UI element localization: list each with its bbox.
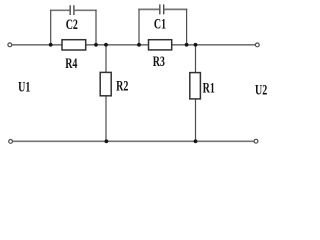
svg-text:U1: U1 — [18, 79, 30, 95]
svg-text:R4: R4 — [65, 55, 77, 71]
svg-text:C2: C2 — [66, 16, 78, 32]
svg-text:R1: R1 — [203, 80, 215, 96]
svg-text:C1: C1 — [154, 16, 166, 32]
svg-text:U2: U2 — [255, 82, 267, 98]
svg-text:R2: R2 — [116, 78, 128, 94]
svg-text:R3: R3 — [153, 53, 165, 69]
